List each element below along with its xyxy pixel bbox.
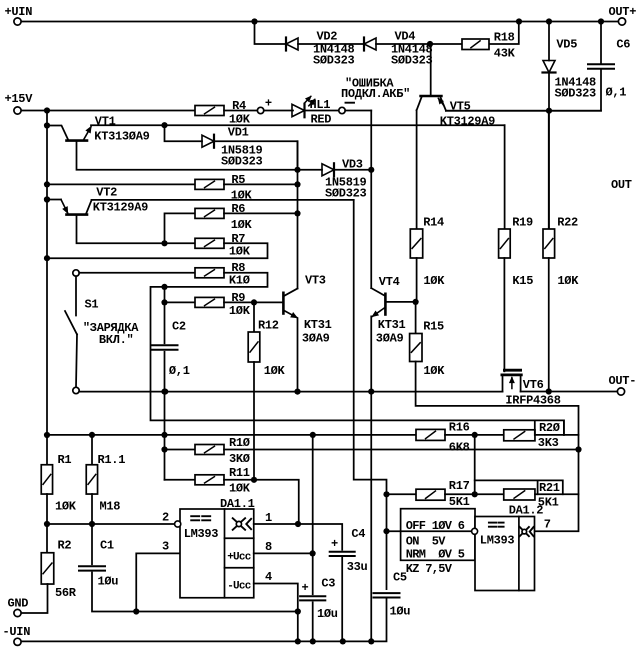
svg-text:KT31: KT31 xyxy=(304,318,332,332)
svg-text:R15: R15 xyxy=(423,320,444,334)
svg-text:IRFP4368: IRFP4368 xyxy=(505,393,560,407)
svg-text:NRM ØV 5: NRM ØV 5 xyxy=(406,548,465,562)
svg-text:R1: R1 xyxy=(58,453,72,467)
svg-text:1ØK: 1ØK xyxy=(229,244,251,258)
svg-text:1ØK: 1ØK xyxy=(229,481,251,495)
svg-text:56R: 56R xyxy=(55,586,77,600)
svg-text:R5: R5 xyxy=(231,173,245,187)
svg-text:1ØK: 1ØK xyxy=(55,500,77,514)
svg-text:C6: C6 xyxy=(616,37,630,51)
svg-text:ПОДКЛ.АКБ": ПОДКЛ.АКБ" xyxy=(341,87,410,101)
svg-text:1ØK: 1ØK xyxy=(423,364,445,378)
svg-text:OFF 1ØV 6: OFF 1ØV 6 xyxy=(406,519,465,533)
svg-text:LM393: LM393 xyxy=(184,527,219,541)
svg-text:1ØK: 1ØK xyxy=(229,112,251,126)
svg-text:LM393: LM393 xyxy=(480,534,515,548)
svg-text:K15: K15 xyxy=(512,274,533,288)
svg-text:R22: R22 xyxy=(557,216,578,230)
svg-text:KT3129A9: KT3129A9 xyxy=(440,114,495,128)
svg-text:R1.1: R1.1 xyxy=(98,453,126,467)
svg-text:R6: R6 xyxy=(231,202,245,216)
svg-text:R18: R18 xyxy=(494,31,515,45)
svg-text:+UIN: +UIN xyxy=(5,5,33,19)
svg-text:VT3: VT3 xyxy=(305,273,326,287)
svg-text:8: 8 xyxy=(265,540,272,554)
svg-text:VT2: VT2 xyxy=(96,186,117,200)
svg-text:1ØK: 1ØK xyxy=(423,274,445,288)
svg-text:+: + xyxy=(265,96,272,110)
svg-text:3KØ: 3KØ xyxy=(229,452,250,466)
svg-text:OUT: OUT xyxy=(611,178,632,192)
svg-text:R12: R12 xyxy=(258,318,279,332)
svg-text:KT3129A9: KT3129A9 xyxy=(93,201,148,215)
svg-text:-UIN: -UIN xyxy=(3,625,31,639)
svg-text:R16: R16 xyxy=(449,421,470,435)
svg-text:VD1: VD1 xyxy=(228,126,249,140)
svg-text:OUT-: OUT- xyxy=(609,374,637,388)
svg-text:OUT+: OUT+ xyxy=(609,5,637,19)
svg-text:3ØА9: 3ØА9 xyxy=(376,332,404,346)
svg-text:5K1: 5K1 xyxy=(449,495,470,509)
svg-text:4: 4 xyxy=(265,570,272,584)
svg-text:2: 2 xyxy=(162,510,169,524)
svg-text:SØD323: SØD323 xyxy=(221,155,263,169)
svg-text:VT1: VT1 xyxy=(95,115,116,129)
svg-text:C4: C4 xyxy=(351,527,365,541)
svg-text:R11: R11 xyxy=(229,466,250,480)
svg-text:K1Ø: K1Ø xyxy=(229,273,250,287)
svg-text:1Øu: 1Øu xyxy=(98,575,119,589)
svg-text:3ØА9: 3ØА9 xyxy=(302,332,330,346)
svg-text:+Ucc: +Ucc xyxy=(227,552,251,564)
svg-text:+: + xyxy=(331,537,338,551)
svg-text:Ø,1: Ø,1 xyxy=(169,364,190,378)
svg-text:DA1.2: DA1.2 xyxy=(509,504,544,518)
svg-text:33u: 33u xyxy=(347,560,368,574)
svg-text:1ØK: 1ØK xyxy=(231,188,253,202)
svg-text:KT313ØA9: KT313ØA9 xyxy=(94,129,149,143)
svg-text:-Ucc: -Ucc xyxy=(227,580,251,592)
svg-text:1ØK: 1ØK xyxy=(557,274,579,288)
svg-text:S1: S1 xyxy=(85,298,99,312)
svg-text:C1: C1 xyxy=(100,538,114,552)
svg-text:ON 5V: ON 5V xyxy=(406,535,447,549)
svg-text:R19: R19 xyxy=(512,216,533,230)
svg-text:1: 1 xyxy=(265,511,272,525)
svg-text:HL1: HL1 xyxy=(310,98,331,112)
svg-text:C3: C3 xyxy=(321,577,335,591)
svg-text:KT31: KT31 xyxy=(378,318,406,332)
svg-text:6K8: 6K8 xyxy=(449,440,470,454)
svg-text:VT5: VT5 xyxy=(450,99,471,113)
svg-text:VT4: VT4 xyxy=(379,275,400,289)
svg-text:1ØK: 1ØK xyxy=(264,364,286,378)
svg-text:+15V: +15V xyxy=(5,92,34,106)
svg-text:1Øu: 1Øu xyxy=(317,607,338,621)
svg-text:R2: R2 xyxy=(58,538,72,552)
svg-text:1ØK: 1ØK xyxy=(231,218,253,232)
svg-text:1Øu: 1Øu xyxy=(390,604,411,618)
svg-text:SØD323: SØD323 xyxy=(555,87,597,101)
svg-text:SØD323: SØD323 xyxy=(391,53,433,67)
svg-text:R14: R14 xyxy=(423,216,444,230)
svg-text:SØD323: SØD323 xyxy=(325,187,367,201)
svg-text:R1Ø: R1Ø xyxy=(229,436,250,450)
svg-text:Ø,1: Ø,1 xyxy=(606,86,627,100)
svg-text:7: 7 xyxy=(544,517,551,531)
svg-text:SØD323: SØD323 xyxy=(313,53,355,67)
svg-text:ВКЛ.": ВКЛ." xyxy=(99,333,134,347)
svg-text:+: + xyxy=(302,581,309,595)
svg-text:M18: M18 xyxy=(100,500,121,514)
svg-text:R4: R4 xyxy=(232,99,246,113)
svg-text:VT6: VT6 xyxy=(523,378,544,392)
svg-text:R9: R9 xyxy=(231,291,245,305)
svg-text:43K: 43K xyxy=(494,47,516,61)
svg-text:3K3: 3K3 xyxy=(538,436,559,450)
svg-text:1ØK: 1ØK xyxy=(229,304,251,318)
svg-text:VD3: VD3 xyxy=(342,158,363,172)
svg-text:R2Ø: R2Ø xyxy=(539,421,560,435)
svg-text:3: 3 xyxy=(162,539,169,553)
svg-text:C2: C2 xyxy=(172,320,186,334)
svg-text:VD5: VD5 xyxy=(556,37,577,51)
svg-text:KZ 7,5V: KZ 7,5V xyxy=(406,562,453,576)
svg-text:DA1.1: DA1.1 xyxy=(220,497,255,511)
svg-text:R17: R17 xyxy=(449,479,470,493)
svg-text:GND: GND xyxy=(8,597,29,611)
svg-text:R21: R21 xyxy=(539,481,560,495)
svg-text:RED: RED xyxy=(311,112,332,126)
